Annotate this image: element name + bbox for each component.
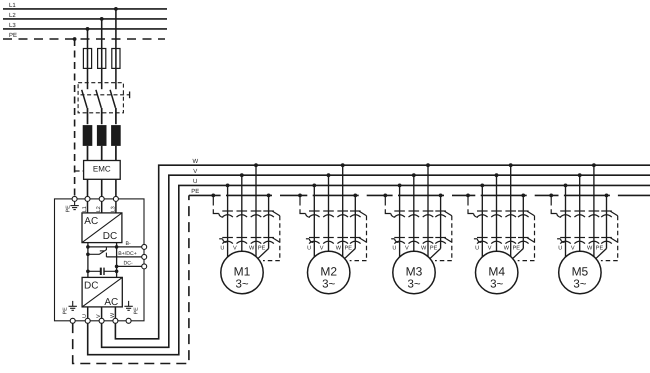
ground symbol bottom right PE bbox=[124, 301, 139, 315]
svg-text:W: W bbox=[249, 245, 255, 251]
wire L2 drop bbox=[101, 19, 103, 89]
svg-text:B-: B- bbox=[126, 241, 131, 247]
terminal B- bbox=[117, 241, 147, 249]
cable shield M4 bbox=[518, 211, 535, 260]
label M3 terminals bbox=[392, 245, 437, 251]
capacitor DC link bbox=[86, 268, 118, 275]
node M2 PE tap bbox=[353, 194, 357, 198]
label V bus bbox=[193, 168, 197, 175]
svg-text:W: W bbox=[421, 245, 427, 251]
node M2 W tap bbox=[341, 163, 345, 167]
wire inverter out V bbox=[96, 307, 102, 318]
fuse F2 bbox=[98, 49, 106, 69]
cable shield M2 bbox=[350, 211, 367, 260]
svg-text:3~: 3~ bbox=[573, 278, 586, 290]
fuse F1 bbox=[83, 49, 91, 69]
svg-text:V: V bbox=[571, 245, 575, 251]
node M1 U tap bbox=[226, 184, 230, 188]
node M4 U tap bbox=[480, 184, 484, 188]
wire M3 PE branch left bbox=[385, 195, 395, 217]
wire L3 drop bbox=[87, 29, 89, 89]
terminal L1 top bbox=[85, 196, 90, 201]
motor M1 bbox=[221, 251, 263, 293]
wire W phase to bus bbox=[115, 165, 650, 339]
plug connector M4 top bbox=[477, 211, 529, 217]
label U bus bbox=[193, 178, 197, 185]
node M5 V tap bbox=[578, 173, 582, 177]
terminal W bottom bbox=[113, 318, 118, 323]
node M2 PE left tap bbox=[298, 194, 302, 198]
wire EMC out 1 bbox=[87, 179, 89, 196]
EMC filter bbox=[84, 161, 121, 180]
plug connector M1 bottom bbox=[219, 238, 274, 244]
wire DC link rail right bbox=[116, 243, 118, 278]
svg-text:PE: PE bbox=[345, 245, 353, 251]
wire terminal L2 to rectifier bbox=[96, 201, 102, 213]
fuse F3 bbox=[112, 49, 120, 69]
wire M5 W phase bbox=[593, 165, 595, 258]
svg-text:V: V bbox=[96, 314, 102, 318]
wire DC+ top link bbox=[86, 245, 118, 249]
svg-text:U: U bbox=[307, 245, 311, 251]
node M2 U tap bbox=[312, 184, 316, 188]
node M5 PE tap bbox=[605, 194, 609, 198]
svg-text:DC: DC bbox=[84, 281, 98, 292]
svg-text:3~: 3~ bbox=[407, 278, 420, 290]
svg-text:V: V bbox=[488, 245, 492, 251]
wire terminal L1 to rectifier bbox=[82, 201, 88, 213]
svg-text:W: W bbox=[504, 245, 510, 251]
svg-text:PE: PE bbox=[258, 245, 266, 251]
svg-text:M4: M4 bbox=[488, 264, 505, 278]
label PE bus bbox=[191, 188, 199, 195]
svg-text:U: U bbox=[193, 178, 197, 185]
svg-text:V: V bbox=[193, 168, 197, 175]
plug connector M5 bottom bbox=[557, 238, 612, 244]
wire M1 PE conductor bbox=[257, 195, 269, 259]
terminal DC- bbox=[115, 261, 147, 269]
svg-text:PE: PE bbox=[63, 307, 69, 315]
motor M3 bbox=[393, 251, 435, 293]
node M1 V tap bbox=[240, 173, 244, 177]
line choke L3 bbox=[112, 126, 121, 161]
wire M5 U phase bbox=[565, 185, 567, 258]
wire M2 V phase bbox=[328, 175, 330, 253]
node L1 junction bbox=[114, 7, 118, 11]
motor M4 bbox=[476, 251, 518, 293]
wire M2 U phase bbox=[313, 185, 315, 258]
svg-text:AC: AC bbox=[104, 297, 118, 308]
svg-text:L1: L1 bbox=[9, 2, 16, 9]
svg-text:V: V bbox=[405, 245, 409, 251]
cable shield M1 bbox=[263, 211, 280, 260]
node M3 V tap bbox=[412, 173, 416, 177]
net L3 bbox=[3, 22, 167, 29]
motor M5 bbox=[559, 251, 601, 293]
wire M5 V phase bbox=[579, 175, 581, 253]
svg-text:W: W bbox=[110, 312, 116, 318]
svg-text:L2: L2 bbox=[9, 12, 16, 19]
motor M2 bbox=[308, 251, 350, 293]
svg-text:PE: PE bbox=[9, 32, 17, 39]
svg-text:PE: PE bbox=[513, 245, 521, 251]
cable shield M5 bbox=[601, 211, 618, 260]
wire M3 V phase bbox=[413, 175, 415, 253]
wire PE stub to EMC bbox=[75, 170, 84, 172]
terminal PE2 bottom bbox=[126, 318, 131, 323]
plug connector M2 bottom bbox=[306, 238, 361, 244]
terminal B+/DC+ bbox=[106, 251, 146, 259]
terminal L2 top bbox=[99, 196, 104, 201]
svg-text:V: V bbox=[320, 245, 324, 251]
svg-text:M1: M1 bbox=[234, 264, 251, 278]
terminal PE top bbox=[72, 196, 77, 201]
contactor K1 pole 1 bbox=[82, 90, 88, 124]
node M3 PE tap bbox=[439, 194, 443, 198]
wire PE to bus (dashed) bbox=[73, 195, 189, 363]
wire terminal L3 to rectifier bbox=[110, 201, 116, 213]
wire M1 PE branch left bbox=[213, 195, 223, 217]
wire M4 V phase bbox=[496, 175, 498, 253]
wire M1 W phase bbox=[255, 165, 257, 258]
node M1 W tap bbox=[254, 163, 258, 167]
line choke L2 bbox=[97, 126, 106, 161]
terminal U bottom bbox=[85, 318, 90, 323]
node L2 junction bbox=[100, 17, 104, 21]
svg-text:U: U bbox=[558, 245, 562, 251]
svg-text:U: U bbox=[475, 245, 479, 251]
svg-text:PE: PE bbox=[596, 245, 604, 251]
plug connector M5 top bbox=[560, 211, 612, 217]
svg-text:PE: PE bbox=[134, 307, 140, 315]
wire M3 PE conductor bbox=[429, 195, 441, 259]
wire M3 U phase bbox=[399, 185, 401, 258]
svg-text:U: U bbox=[392, 245, 396, 251]
rectifier AC/DC block bbox=[82, 213, 122, 243]
label M5 terminals bbox=[558, 245, 603, 251]
plug connector M4 bottom bbox=[474, 238, 529, 244]
contactor K1 pole 2 bbox=[96, 90, 102, 124]
svg-text:U: U bbox=[82, 314, 88, 318]
label M4 terminals bbox=[475, 245, 520, 251]
wire DC link rail left bbox=[87, 243, 89, 278]
svg-text:U: U bbox=[220, 245, 224, 251]
cable shield M3 bbox=[435, 211, 452, 260]
node M1 PE tap bbox=[267, 194, 271, 198]
wire inverter out W bbox=[110, 307, 116, 318]
wire EMC out 2 bbox=[101, 179, 103, 196]
wire M2 PE branch left bbox=[300, 195, 310, 217]
node M4 W tap bbox=[509, 163, 513, 167]
wire V phase to bus bbox=[102, 175, 650, 347]
brake chopper bbox=[86, 247, 106, 257]
svg-text:L3: L3 bbox=[110, 206, 116, 212]
wire M1 U phase bbox=[227, 185, 229, 258]
svg-text:V: V bbox=[233, 245, 237, 251]
svg-text:3~: 3~ bbox=[322, 278, 335, 290]
wire U phase to bus bbox=[88, 185, 650, 354]
svg-text:L1: L1 bbox=[82, 206, 88, 212]
svg-text:3~: 3~ bbox=[235, 278, 248, 290]
contactor K1 pole 3 bbox=[110, 90, 116, 124]
wire EMC out 3 bbox=[115, 179, 117, 196]
plug connector M3 top bbox=[394, 211, 446, 217]
wire M2 PE conductor bbox=[343, 195, 355, 259]
node M2 V tap bbox=[327, 173, 331, 177]
wire L1 drop bbox=[115, 9, 117, 89]
svg-text:M3: M3 bbox=[406, 264, 423, 278]
wire M5 PE conductor bbox=[595, 195, 607, 259]
contactor K1 outline (dashed) bbox=[78, 83, 123, 113]
node PE junction bbox=[73, 37, 77, 41]
wire M5 PE branch left bbox=[551, 195, 561, 217]
net L2 bbox=[3, 12, 167, 19]
ground symbol bottom left PE bbox=[63, 301, 77, 315]
wire M1 V phase bbox=[241, 175, 243, 253]
node M4 PE tap bbox=[521, 194, 525, 198]
svg-text:W: W bbox=[587, 245, 593, 251]
frequency converter U1 enclosure bbox=[55, 199, 145, 321]
net PE motor bus bbox=[189, 194, 650, 196]
node M5 W tap bbox=[592, 163, 596, 167]
node M4 V tap bbox=[495, 173, 499, 177]
inverter DC/AC block bbox=[82, 277, 122, 307]
plug connector M2 top bbox=[309, 211, 361, 217]
node M3 W tap bbox=[426, 163, 430, 167]
svg-text:W: W bbox=[336, 245, 342, 251]
wire M4 W phase bbox=[510, 165, 512, 258]
node M4 PE left tap bbox=[466, 194, 470, 198]
contactor K1 mechanical link bbox=[81, 92, 130, 99]
svg-text:B+/DC+: B+/DC+ bbox=[118, 251, 136, 257]
svg-text:PE: PE bbox=[430, 245, 438, 251]
svg-text:PE: PE bbox=[66, 205, 72, 213]
svg-text:M2: M2 bbox=[320, 264, 337, 278]
svg-text:3~: 3~ bbox=[490, 278, 503, 290]
wire PE drop (dashed) bbox=[74, 39, 76, 197]
svg-text:M5: M5 bbox=[572, 264, 589, 278]
wire M4 PE conductor bbox=[511, 195, 523, 259]
node M1 PE left tap bbox=[211, 194, 215, 198]
terminal L3 top bbox=[113, 196, 118, 201]
node L3 junction bbox=[86, 27, 90, 31]
wire M4 PE branch left bbox=[468, 195, 478, 217]
wire inverter out U bbox=[82, 307, 88, 318]
wire M3 W phase bbox=[427, 165, 429, 258]
wire M2 W phase bbox=[342, 165, 344, 258]
plug connector M3 bottom bbox=[391, 238, 446, 244]
terminal PE bottom bbox=[70, 318, 75, 323]
label M1 terminals bbox=[220, 245, 265, 251]
line choke L1 bbox=[83, 126, 92, 161]
terminal V bottom bbox=[99, 318, 104, 323]
plug connector M1 top bbox=[222, 211, 274, 217]
label W bus bbox=[193, 158, 199, 165]
net PE bbox=[3, 32, 165, 39]
node M3 PE left tap bbox=[383, 194, 387, 198]
svg-text:EMC: EMC bbox=[93, 164, 111, 173]
svg-text:L3: L3 bbox=[9, 22, 16, 29]
wire M4 U phase bbox=[481, 185, 483, 258]
node M5 PE left tap bbox=[549, 194, 553, 198]
svg-text:DC-: DC- bbox=[124, 261, 133, 267]
svg-text:W: W bbox=[193, 158, 199, 165]
svg-text:L2: L2 bbox=[96, 206, 102, 212]
svg-text:DC: DC bbox=[103, 231, 117, 242]
label PE top (rotated) bbox=[66, 205, 72, 213]
ground symbol top PE bbox=[70, 202, 78, 210]
label M2 terminals bbox=[307, 245, 352, 251]
node M5 U tap bbox=[564, 184, 568, 188]
net L1 bbox=[3, 2, 167, 9]
node M3 U tap bbox=[398, 184, 402, 188]
svg-text:PE: PE bbox=[191, 188, 199, 195]
svg-text:AC: AC bbox=[84, 216, 98, 227]
